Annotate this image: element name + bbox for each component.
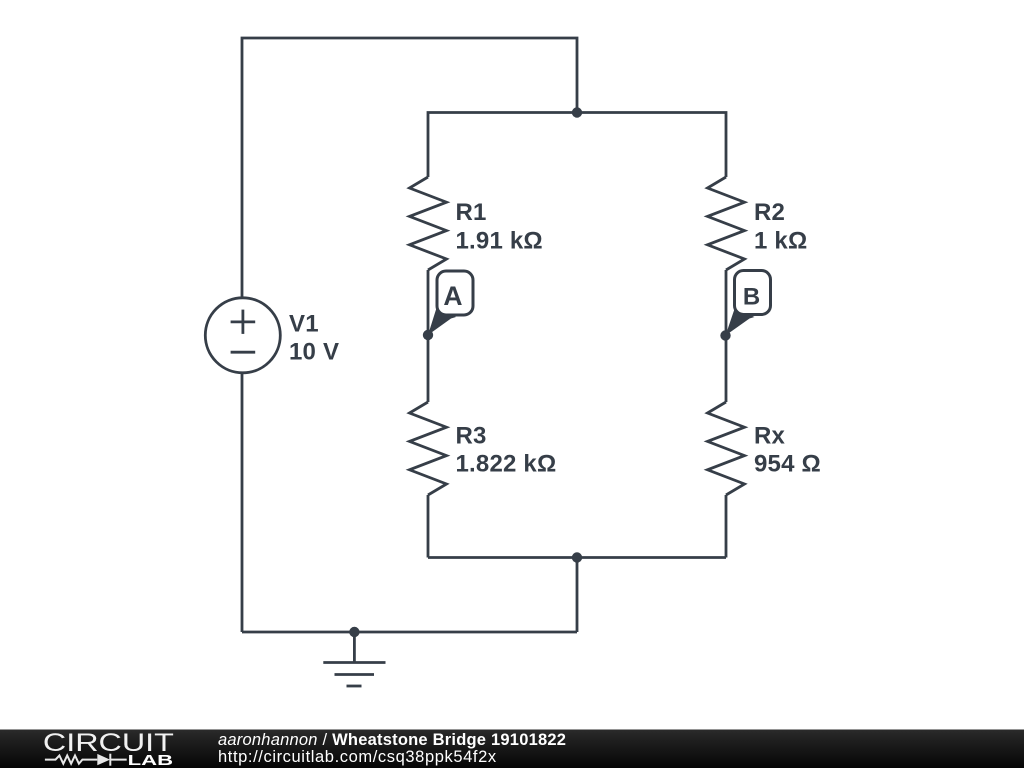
- node B: [720, 271, 770, 341]
- junction dot ground: [349, 627, 359, 637]
- junction dot top: [572, 107, 582, 117]
- wire R3 bottom lead: [427, 495, 430, 558]
- svg-text:1.91 kΩ: 1.91 kΩ: [456, 228, 543, 255]
- wire V1 bottom lead: [241, 373, 244, 632]
- resistor Rx: [708, 402, 745, 495]
- svg-text:R2: R2: [754, 199, 785, 226]
- svg-text:aaronhannon / Wheatstone Bridg: aaronhannon / Wheatstone Bridge 19101822: [218, 731, 566, 749]
- svg-text:A: A: [443, 281, 462, 311]
- svg-text:1.822 kΩ: 1.822 kΩ: [456, 451, 557, 478]
- svg-text:B: B: [743, 283, 761, 310]
- svg-text:http://circuitlab.com/csq38ppk: http://circuitlab.com/csq38ppk54f2x: [218, 748, 497, 766]
- voltage source V1: [205, 298, 280, 373]
- junction dot bottom: [572, 552, 582, 562]
- wire bridge bottom rail: [428, 556, 726, 559]
- wire R1 to R3 through node A: [427, 270, 430, 402]
- logo resistor-diode symbol: [45, 754, 127, 766]
- resistor R1: [410, 177, 447, 270]
- svg-text:R1: R1: [456, 199, 487, 226]
- resistor R3: [410, 402, 447, 495]
- svg-text:10 V: 10 V: [289, 339, 339, 366]
- wire bridge top rail: [428, 113, 726, 178]
- node A: [423, 271, 473, 340]
- wire R2 to Rx through node B: [725, 270, 728, 402]
- wire bottom rail: [242, 631, 577, 634]
- svg-text:954 Ω: 954 Ω: [754, 451, 821, 478]
- svg-text:LAB: LAB: [128, 752, 174, 768]
- svg-text:1 kΩ: 1 kΩ: [754, 228, 807, 255]
- wire bottom junction to ground rail: [576, 558, 579, 633]
- svg-text:V1: V1: [289, 311, 319, 338]
- wire Rx bottom lead: [725, 495, 728, 558]
- svg-text:Rx: Rx: [754, 423, 786, 450]
- resistor R2: [708, 177, 745, 270]
- ground: [323, 632, 385, 686]
- wire top loop from V1 to top junction: [242, 38, 577, 298]
- svg-text:R3: R3: [456, 423, 487, 450]
